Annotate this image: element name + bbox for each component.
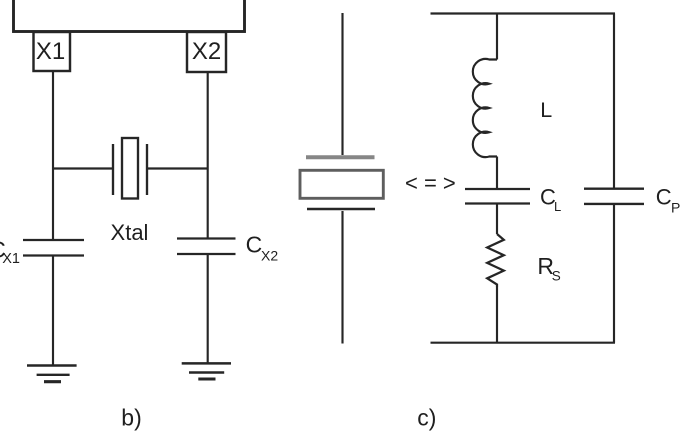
wire X1 to C_X1 xyxy=(52,71,54,240)
crystal Xtal xyxy=(113,138,147,199)
crystal body xyxy=(300,170,383,198)
wire bottom lead xyxy=(341,211,343,344)
capacitor C_P xyxy=(584,189,644,204)
capacitor C_L xyxy=(465,189,530,204)
ground (right) xyxy=(182,363,231,379)
svg-text:X1: X1 xyxy=(36,38,65,65)
svg-text:< = >: < = > xyxy=(405,171,456,196)
wire bottom rail xyxy=(431,342,616,344)
wire inductor to C_L xyxy=(496,157,498,190)
svg-text:L: L xyxy=(540,98,552,122)
svg-text:P: P xyxy=(671,200,680,216)
wire node X1 to crystal xyxy=(53,167,113,169)
svg-text:b): b) xyxy=(121,405,141,431)
bottom plate xyxy=(307,208,375,210)
capacitor C_X2 xyxy=(177,239,236,255)
resistor R_S xyxy=(487,234,504,287)
top plate xyxy=(306,155,375,159)
label R_S xyxy=(537,253,560,284)
label C_P xyxy=(656,185,681,216)
wire right rail lower (from C_P) xyxy=(613,204,615,343)
svg-text:X2: X2 xyxy=(192,38,221,65)
pin X2 xyxy=(187,32,226,72)
wire right rail upper (to C_P) xyxy=(613,14,615,189)
capacitor C_X1 xyxy=(23,240,84,256)
svg-text:Xtal: Xtal xyxy=(111,220,149,245)
IC U1 (body, top cut off) xyxy=(14,0,245,32)
svg-text:X1: X1 xyxy=(2,251,20,267)
inductor L xyxy=(473,59,497,157)
svg-text:L: L xyxy=(554,199,561,214)
svg-text:C: C xyxy=(656,185,672,210)
label C_X2 xyxy=(246,232,279,264)
ground (left) xyxy=(27,366,77,382)
label C_L xyxy=(540,184,561,214)
wire top rail xyxy=(431,12,616,14)
svg-text:c): c) xyxy=(417,405,436,431)
label C_X1 (clipped at left edge) xyxy=(0,236,20,267)
wire top rail to inductor xyxy=(496,14,498,60)
svg-text:S: S xyxy=(552,269,561,284)
wire top lead xyxy=(341,13,343,155)
wire C_X1 to ground xyxy=(52,256,54,366)
wire R_S to bottom rail xyxy=(496,287,498,343)
wire C_X2 to ground xyxy=(207,254,209,363)
pin X1 xyxy=(34,32,71,71)
crystal symbol (package view, part c) xyxy=(300,13,383,344)
svg-text:X2: X2 xyxy=(261,247,278,263)
svg-text:C: C xyxy=(246,232,263,258)
wire X2 to C_X2 xyxy=(207,72,209,239)
wire C_L to R_S xyxy=(496,204,498,235)
wire crystal to node X2 xyxy=(147,167,208,169)
